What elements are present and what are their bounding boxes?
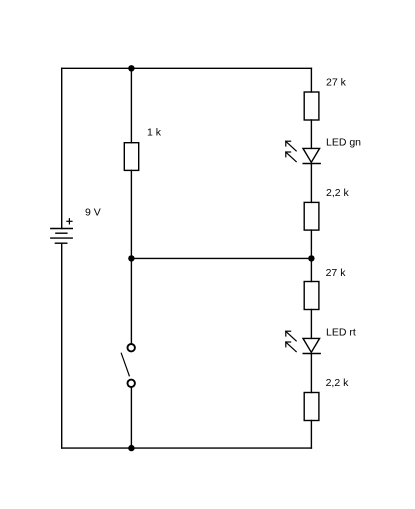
wire 2.2k lower to bottom rail (310, 421, 312, 449)
svg-text:27 k: 27 k (326, 267, 347, 279)
svg-text:2,2 k: 2,2 k (326, 187, 350, 199)
label 9 V (85, 207, 101, 219)
wire top rail (62, 67, 312, 69)
wire LED rt to 2.2k lower (310, 354, 312, 393)
wire left rail upper (61, 68, 63, 228)
LED rt diode (303, 338, 320, 353)
LED rt arrows (286, 331, 296, 352)
label 2,2 k upper (326, 187, 350, 199)
label LED gn (326, 136, 361, 148)
LED gn diode (303, 148, 320, 163)
wire left rail lower (61, 243, 63, 448)
wire middle horizontal (131, 257, 311, 259)
wire 2.2k to mid node (310, 230, 312, 258)
resistor 27k lower (304, 282, 319, 310)
label 27 k upper (326, 77, 347, 89)
resistor 2.2k lower (304, 393, 319, 421)
wire mid node to 27k lower (310, 258, 312, 281)
resistor 1k (124, 143, 138, 171)
wire middle branch to switch (130, 258, 132, 343)
label 27 k lower (326, 267, 347, 279)
node middle left junction (128, 255, 134, 261)
label 1 k (147, 127, 162, 139)
wire 27k to LED gn (310, 120, 312, 148)
resistor 2.2k upper (304, 202, 319, 230)
node top junction (128, 65, 134, 71)
resistor 27k upper (304, 92, 319, 120)
wire middle branch mid (130, 170, 132, 258)
switch S1 (121, 344, 135, 387)
svg-text:1 k: 1 k (147, 127, 162, 139)
battery B1 9V (51, 219, 73, 244)
LED gn arrows (286, 141, 296, 162)
wire 27k lower to LED rt (310, 310, 312, 339)
wire switch to bottom rail (130, 387, 132, 448)
label 2,2 k lower (326, 377, 350, 389)
label LED rt (326, 326, 356, 338)
svg-text:2,2 k: 2,2 k (326, 377, 350, 389)
wire LED gn to 2.2k (310, 164, 312, 203)
wire right branch top (310, 68, 312, 92)
svg-text:27 k: 27 k (326, 77, 347, 89)
svg-text:LED gn: LED gn (326, 136, 361, 148)
wire middle branch top (130, 68, 132, 142)
node bottom junction (128, 445, 134, 451)
svg-text:9 V: 9 V (85, 207, 101, 219)
wire bottom rail (62, 447, 312, 449)
svg-text:LED rt: LED rt (326, 326, 356, 338)
node middle right junction (308, 255, 314, 261)
